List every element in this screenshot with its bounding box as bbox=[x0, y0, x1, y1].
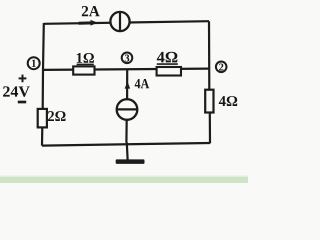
label 2Ω bbox=[48, 111, 66, 121]
resistor R1 1Ω (horizontal) bbox=[73, 66, 94, 74]
node 3 bbox=[122, 53, 133, 64]
resistor R3 2Ω (left vertical) bbox=[38, 109, 47, 128]
resistor R4 4Ω (right vertical) bbox=[205, 90, 213, 113]
node 2 bbox=[216, 62, 227, 73]
current source I2 4A (middle) bbox=[117, 99, 138, 120]
label 24V bbox=[3, 86, 30, 96]
wire top bbox=[44, 21, 209, 24]
wire middle horizontal bbox=[43, 69, 209, 70]
source 24V plus sign bbox=[19, 75, 27, 83]
green footer band bbox=[0, 176, 248, 178]
current source I1 2A (top) bbox=[110, 12, 129, 31]
source 24V minus sign bbox=[18, 101, 26, 104]
wire left vertical upper bbox=[43, 23, 44, 109]
ground bar bbox=[116, 159, 145, 164]
underline 1Ω bbox=[77, 63, 94, 65]
wire bottom bbox=[42, 143, 210, 146]
wire right vertical upper bbox=[208, 21, 211, 90]
underline 4Ω bbox=[157, 63, 178, 65]
label 1Ω bbox=[77, 53, 94, 63]
wire right vertical lower bbox=[209, 112, 211, 143]
wire mid vertical upper bbox=[126, 69, 128, 100]
label 4Ω horizontal bbox=[157, 52, 178, 63]
resistor R2 4Ω (horizontal) bbox=[157, 67, 181, 76]
ground stem bbox=[126, 143, 129, 160]
arrow 4A current direction up bbox=[125, 82, 131, 89]
wire mid vertical lower bbox=[125, 119, 127, 142]
wire left vertical lower bbox=[41, 127, 43, 145]
label 4Ω right bbox=[219, 96, 237, 106]
arrow 2A current direction bbox=[79, 20, 98, 26]
node 1 bbox=[28, 57, 40, 69]
label 4A bbox=[135, 79, 150, 88]
label 2A bbox=[82, 6, 100, 16]
